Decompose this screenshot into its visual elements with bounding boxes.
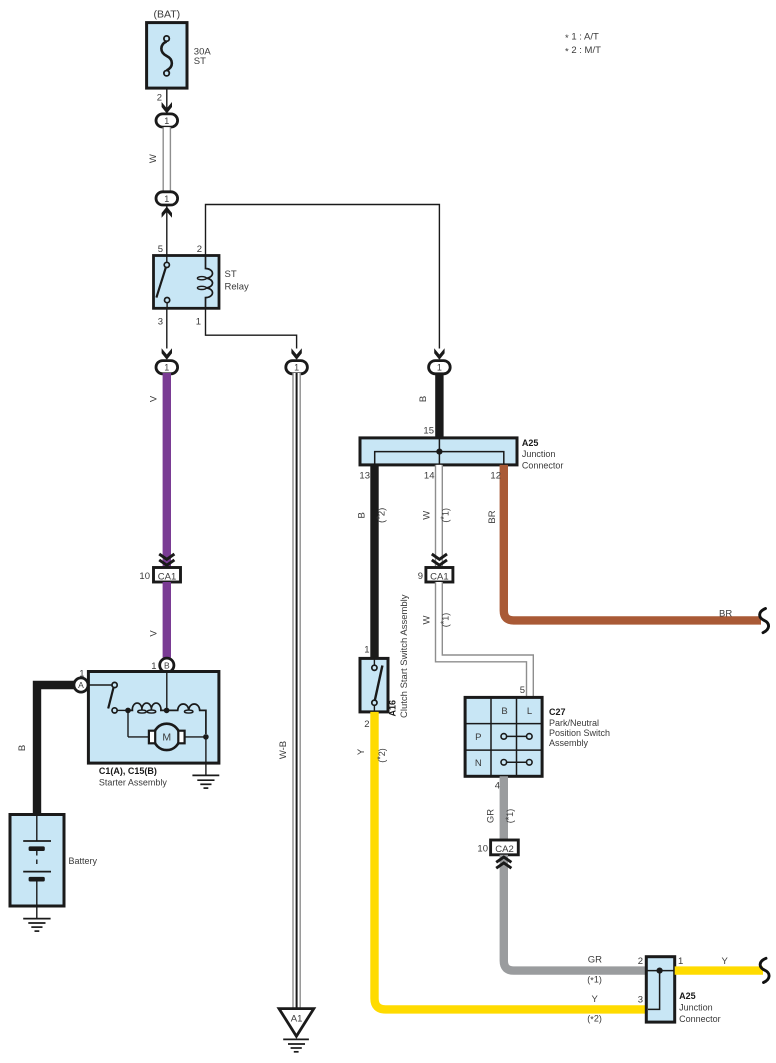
junction connector A25 (horizontal) bbox=[360, 438, 517, 465]
connector CA1 (pin 10) bbox=[154, 568, 181, 583]
wire GR (*1) (gray, C27 pin 4 to CA2) bbox=[500, 776, 508, 840]
svg-text:B: B bbox=[356, 512, 367, 518]
wire W (*1) (white, CA1 to C27 pin 5) bbox=[439, 582, 530, 697]
connector oval 1 (fuse to W wire) bbox=[156, 114, 178, 127]
svg-text:(*2): (*2) bbox=[376, 748, 387, 763]
svg-text:Starter Assembly: Starter Assembly bbox=[99, 777, 168, 787]
svg-text:B: B bbox=[164, 661, 170, 671]
svg-text:(*2): (*2) bbox=[587, 1014, 602, 1025]
svg-text:Connector: Connector bbox=[679, 1014, 721, 1024]
svg-text:ST: ST bbox=[225, 269, 237, 280]
svg-text:(*2): (*2) bbox=[375, 508, 387, 523]
park/neutral position switch C27 bbox=[465, 697, 542, 776]
wire W (*1) (white, A25 pin 14 to CA1) bbox=[435, 465, 443, 568]
svg-text:V: V bbox=[149, 395, 160, 402]
arrows double chevron into CA1 (9) bbox=[432, 554, 447, 565]
svg-text:13: 13 bbox=[359, 471, 370, 482]
connector CA1 (pin 9) bbox=[426, 568, 453, 583]
svg-text:2: 2 bbox=[638, 956, 643, 967]
wire GR (gray, CA2 to A25 vertical pin 2) bbox=[504, 855, 647, 971]
ground triangle A1 bbox=[279, 1009, 314, 1037]
arrow into connector (down, V branch) bbox=[162, 348, 172, 360]
wire W (white, fuse to relay) bbox=[163, 127, 172, 193]
wire to relay pin 5 bbox=[166, 205, 168, 256]
svg-text:N: N bbox=[475, 758, 482, 769]
svg-text:W: W bbox=[422, 511, 433, 520]
junction connector A25 (vertical) bbox=[646, 957, 674, 1022]
svg-text:A25: A25 bbox=[522, 438, 539, 448]
svg-text:5: 5 bbox=[520, 685, 525, 696]
svg-text:(*1): (*1) bbox=[504, 809, 515, 824]
svg-text:12: 12 bbox=[490, 471, 501, 482]
svg-text:C27: C27 bbox=[549, 707, 566, 717]
connector circle A (starter) bbox=[74, 678, 88, 692]
svg-text:1: 1 bbox=[678, 956, 683, 967]
svg-text:Connector: Connector bbox=[522, 460, 564, 470]
svg-text:Y: Y bbox=[592, 994, 599, 1005]
arrow into connector (down, W-B branch) bbox=[291, 348, 301, 360]
wire relay pin 1 to W-B drop bbox=[206, 308, 297, 348]
svg-text:Y: Y bbox=[356, 748, 367, 755]
svg-text:3: 3 bbox=[158, 317, 163, 328]
wire from fuse pin 2 bbox=[166, 88, 168, 113]
svg-text:C1(A), C15(B): C1(A), C15(B) bbox=[99, 766, 157, 776]
svg-text:10: 10 bbox=[139, 571, 150, 582]
svg-text:W: W bbox=[422, 615, 433, 624]
ground (battery) bbox=[23, 919, 50, 932]
wire relay pin 3 down bbox=[166, 308, 168, 348]
svg-text:GR: GR bbox=[588, 955, 602, 966]
ground (starter) bbox=[192, 775, 219, 788]
wire Y (yellow, A25 vertical pin 1 to right edge) bbox=[675, 966, 763, 974]
svg-text:L: L bbox=[527, 706, 532, 717]
svg-text:ST: ST bbox=[194, 56, 206, 67]
svg-text:* 2 : M/T: * 2 : M/T bbox=[565, 45, 601, 58]
svg-text:Clutch Start Switch Assembly: Clutch Start Switch Assembly bbox=[399, 594, 410, 718]
ground (A1) bbox=[283, 1039, 309, 1051]
svg-text:A1: A1 bbox=[291, 1014, 303, 1025]
wire starter to ground bbox=[205, 737, 207, 776]
svg-text:W: W bbox=[148, 154, 159, 163]
arrow into connector (up) bbox=[162, 207, 172, 218]
svg-text:P: P bbox=[475, 732, 481, 743]
svg-text:1: 1 bbox=[294, 363, 299, 373]
svg-text:BR: BR bbox=[487, 510, 498, 523]
connector oval 1 (W wire to relay) bbox=[156, 192, 178, 205]
svg-text:1: 1 bbox=[164, 194, 169, 204]
svg-text:BR: BR bbox=[719, 609, 732, 620]
svg-text:A: A bbox=[78, 680, 84, 690]
svg-text:Relay: Relay bbox=[225, 282, 250, 293]
wire W-B (white-black, oval to ground A1) bbox=[292, 373, 301, 1008]
svg-text:2: 2 bbox=[364, 719, 369, 730]
svg-text:1: 1 bbox=[196, 317, 201, 328]
svg-text:GR: GR bbox=[486, 809, 497, 823]
svg-text:A16: A16 bbox=[388, 700, 398, 717]
svg-text:W-B: W-B bbox=[278, 741, 289, 759]
svg-text:A25: A25 bbox=[679, 991, 696, 1001]
wire BR (brown, A25 pin 12 to right edge) bbox=[504, 465, 761, 621]
svg-text:Junction: Junction bbox=[679, 1003, 713, 1013]
svg-text:Junction: Junction bbox=[522, 449, 556, 459]
svg-text:M: M bbox=[162, 732, 171, 744]
connector oval 1 (B branch) bbox=[429, 361, 451, 374]
svg-text:(BAT): (BAT) bbox=[153, 9, 180, 21]
svg-text:(*1): (*1) bbox=[439, 613, 450, 628]
svg-text:CA1: CA1 bbox=[158, 571, 176, 582]
svg-text:2: 2 bbox=[157, 93, 162, 104]
svg-text:5: 5 bbox=[158, 244, 163, 255]
svg-text:CA1: CA1 bbox=[430, 571, 448, 582]
wire relay pin 2 to B drop bbox=[206, 205, 440, 349]
svg-text:3: 3 bbox=[638, 995, 643, 1006]
continuation squiggle (Y) bbox=[760, 958, 769, 982]
battery bbox=[10, 815, 64, 907]
svg-text:V: V bbox=[149, 630, 160, 637]
wire battery to ground bbox=[36, 906, 38, 919]
connector CA2 (pin 10) bbox=[491, 840, 519, 855]
svg-text:14: 14 bbox=[424, 471, 435, 482]
svg-text:2: 2 bbox=[197, 244, 202, 255]
svg-text:B: B bbox=[501, 706, 507, 717]
svg-text:Battery: Battery bbox=[69, 856, 98, 866]
svg-text:1: 1 bbox=[437, 363, 442, 373]
fuse 30A ST bbox=[147, 23, 187, 89]
starter assembly C1(A), C15(B) bbox=[88, 672, 219, 764]
svg-text:(*1): (*1) bbox=[439, 508, 450, 523]
arrow into connector (down, B branch) bbox=[434, 348, 444, 360]
svg-text:4: 4 bbox=[495, 781, 500, 792]
connector oval 1 (V branch) bbox=[156, 361, 178, 374]
wire V (violet, oval to CA1) bbox=[163, 373, 171, 568]
svg-text:10: 10 bbox=[477, 844, 488, 855]
clutch start switch A16 bbox=[360, 658, 388, 712]
svg-text:B: B bbox=[418, 396, 429, 402]
svg-text:1: 1 bbox=[164, 116, 169, 126]
wire V (violet, CA1 to starter B) bbox=[163, 582, 171, 658]
svg-text:Position Switch: Position Switch bbox=[549, 728, 610, 738]
wire B (black, oval to A25 pin 15) bbox=[435, 373, 443, 438]
svg-text:Assembly: Assembly bbox=[549, 738, 589, 748]
connector circle B (starter) bbox=[160, 658, 174, 672]
svg-text:* 1 : A/T: * 1 : A/T bbox=[565, 32, 599, 45]
arrows double chevron out of CA2 (up) bbox=[496, 857, 511, 868]
svg-text:(*1): (*1) bbox=[587, 975, 602, 986]
wire B (*2) (black, A25 pin 13 to A16) bbox=[370, 465, 378, 659]
arrows double chevron into CA1 (10) bbox=[159, 554, 174, 565]
svg-text:B: B bbox=[17, 745, 28, 751]
arrow into connector (down) bbox=[162, 102, 172, 114]
svg-text:CA2: CA2 bbox=[495, 844, 513, 855]
svg-text:15: 15 bbox=[423, 426, 434, 437]
wire Y (*2) (yellow, A16 to A25 vertical) bbox=[375, 712, 647, 1010]
relay ST Relay bbox=[154, 256, 220, 309]
svg-text:Park/Neutral: Park/Neutral bbox=[549, 718, 599, 728]
wire B (black, A to battery) bbox=[37, 685, 74, 815]
continuation squiggle (BR) bbox=[760, 609, 769, 633]
svg-text:9: 9 bbox=[418, 571, 423, 582]
svg-text:Y: Y bbox=[722, 956, 729, 967]
svg-text:1: 1 bbox=[164, 363, 169, 373]
connector oval 1 (W-B branch) bbox=[286, 361, 308, 374]
svg-text:1: 1 bbox=[364, 645, 369, 656]
